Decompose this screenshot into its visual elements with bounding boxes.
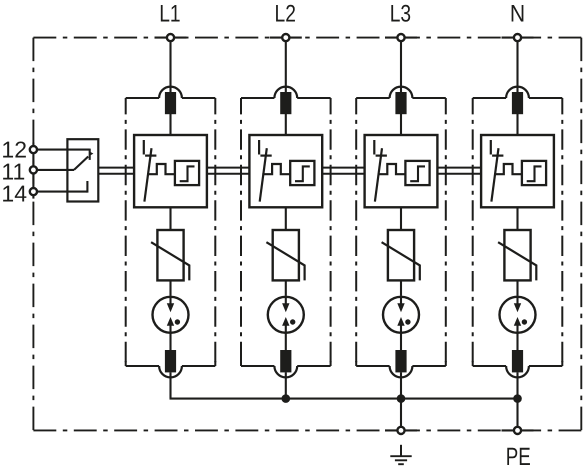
node PE terminal on enclosure bbox=[514, 427, 521, 434]
wire contact 11 bbox=[33, 169, 74, 171]
wire (top border solid at node) bbox=[270, 37, 302, 39]
spark gap F6 circle bbox=[268, 297, 304, 333]
module box L2 left side (dash-dot) bbox=[240, 98, 242, 366]
module box L1 right side (dash-dot) bbox=[214, 98, 216, 366]
enclosure border right (dash-dot) bbox=[580, 38, 582, 431]
junction node L3/bus bbox=[397, 394, 406, 403]
varistor RV1 strike line bbox=[151, 242, 189, 280]
wire L3 input bbox=[400, 38, 402, 135]
node N (terminal on enclosure) bbox=[514, 34, 521, 41]
module box L3 bottom edge bbox=[356, 365, 389, 367]
spark gap F7 trigger dot bbox=[405, 319, 410, 324]
terminal arc L1 top bbox=[159, 87, 182, 98]
terminal X4 top (black block) bbox=[512, 92, 523, 114]
module box L1 left side (dash-dot) bbox=[125, 98, 127, 366]
terminal arc L3 top bbox=[390, 87, 413, 98]
svg-text:L1: L1 bbox=[159, 1, 180, 28]
varistor RV3 bbox=[388, 230, 414, 280]
monitoring unit U1 pulse symbol bbox=[180, 166, 195, 181]
terminal X2 top (black block) bbox=[280, 92, 291, 114]
wire L2 to PE bus bbox=[285, 372, 287, 398]
monitoring unit U4 (pulse box) bbox=[522, 161, 546, 185]
module box L1 bottom edge bbox=[126, 365, 159, 367]
module box L3 top edge bbox=[356, 97, 389, 99]
terminal X1 bottom (black block) bbox=[165, 350, 176, 372]
disconnector F4 switch contact bbox=[490, 140, 492, 155]
terminal X3 bottom (black block) bbox=[395, 350, 406, 372]
spark gap F5 circle bbox=[153, 297, 189, 333]
terminal X2 bottom (black block) bbox=[280, 350, 291, 372]
terminal arc N bottom bbox=[506, 366, 529, 377]
spark gap F7 electrodes bbox=[400, 296, 402, 305]
disconnector F1 switch contact bbox=[143, 140, 145, 155]
wire contact 14 bbox=[33, 191, 87, 193]
wire N to PE bus bbox=[516, 372, 518, 398]
disconnector F1 linkage staircase bbox=[147, 164, 175, 174]
mechanical linkage F1 to F2 (double line) bbox=[207, 167, 250, 169]
monitoring unit U4 pulse symbol bbox=[527, 166, 542, 181]
monitoring unit U1 (pulse box) bbox=[175, 161, 199, 185]
module box N bottom edge bbox=[473, 365, 506, 367]
svg-text:PE: PE bbox=[506, 443, 531, 471]
disconnector F2 linkage staircase bbox=[262, 164, 290, 174]
wire contact 12 bbox=[33, 149, 89, 151]
disconnector F3 box bbox=[365, 135, 438, 207]
monitoring unit U3 (pulse box) bbox=[405, 161, 429, 185]
terminal arc N top bbox=[506, 87, 529, 98]
wire N input bbox=[516, 38, 518, 135]
enclosure border bottom (dash-dot) bbox=[33, 429, 581, 431]
module box L1 top edge bbox=[126, 97, 159, 99]
node L2 (terminal on enclosure) bbox=[282, 34, 289, 41]
varistor RV3 strike line bbox=[382, 242, 420, 280]
mechanical linkage F3 to F4 (double line) bbox=[437, 167, 481, 169]
terminal arc L3 bottom bbox=[390, 366, 413, 377]
wire bus to PE terminal bbox=[516, 399, 518, 431]
node terminal 14 bbox=[30, 188, 37, 195]
monitoring unit U2 pulse symbol bbox=[295, 166, 310, 181]
ground symbol bbox=[400, 445, 402, 456]
spark gap F8 circle bbox=[500, 297, 536, 333]
svg-text:N: N bbox=[510, 1, 525, 28]
module box L2 right side (dash-dot) bbox=[330, 98, 332, 366]
enclosure border top (dash-dot) bbox=[33, 37, 581, 39]
node terminal 11 bbox=[30, 166, 37, 173]
wire L3 to PE bus bbox=[400, 372, 402, 398]
mechanical linkage remote-box to F1 (double line) bbox=[98, 167, 134, 169]
PE bus wire bbox=[170, 398, 518, 400]
wire N disconnector to varistor bbox=[516, 207, 518, 230]
remote contact box K1 bbox=[67, 139, 98, 201]
disconnector F2 box bbox=[249, 135, 322, 207]
varistor RV1 bbox=[157, 230, 183, 280]
node L1 (terminal on enclosure) bbox=[167, 34, 174, 41]
wire L3 disconnector to varistor bbox=[400, 207, 402, 230]
disconnector F1 box bbox=[134, 135, 207, 207]
varistor RV2 bbox=[273, 230, 299, 280]
changeover contact blade bbox=[74, 157, 88, 170]
module box N right side (dash-dot) bbox=[561, 98, 563, 366]
module box N left side (dash-dot) bbox=[472, 98, 474, 366]
svg-text:L2: L2 bbox=[275, 1, 296, 28]
wire L1 to PE bus bbox=[169, 372, 171, 398]
node earth terminal on enclosure bbox=[397, 427, 404, 434]
spark gap F8 electrodes bbox=[516, 296, 518, 305]
wire L2 disconnector to varistor bbox=[285, 207, 287, 230]
module box L2 bottom edge bbox=[241, 365, 274, 367]
monitoring unit U2 (pulse box) bbox=[290, 161, 314, 185]
wire L3 varistor to spark gap bbox=[400, 280, 402, 295]
disconnector F2 switch contact bbox=[258, 140, 260, 155]
module box N top edge bbox=[473, 97, 506, 99]
mechanical linkage F2 to F3 (double line) bbox=[322, 167, 364, 169]
wire L1 input bbox=[169, 38, 171, 135]
disconnector F4 linkage staircase bbox=[494, 164, 522, 174]
wire (top border solid at node) bbox=[155, 37, 187, 39]
wire N varistor to spark gap bbox=[516, 280, 518, 295]
module box L2 top edge bbox=[241, 97, 274, 99]
terminal X1 top (black block) bbox=[165, 92, 176, 114]
spark gap F5 trigger dot bbox=[175, 319, 180, 324]
junction node N/bus bbox=[513, 394, 522, 403]
enclosure border left (dash-dot) bbox=[32, 38, 34, 431]
module box L3 left side (dash-dot) bbox=[355, 98, 357, 366]
wire L1 disconnector to varistor bbox=[169, 207, 171, 230]
disconnector F3 linkage staircase bbox=[378, 164, 406, 174]
terminal arc L2 bottom bbox=[274, 366, 297, 377]
varistor RV4 strike line bbox=[498, 242, 536, 280]
wire L1 varistor to spark gap bbox=[169, 280, 171, 295]
spark gap F5 electrodes bbox=[169, 296, 171, 305]
wire L2 input bbox=[285, 38, 287, 135]
wire (bottom border solid at earth node) bbox=[385, 429, 417, 431]
monitoring unit U3 pulse symbol bbox=[410, 166, 425, 181]
spark gap F6 electrodes bbox=[285, 296, 287, 305]
disconnector F3 switch contact bbox=[373, 140, 375, 155]
terminal X4 bottom (black block) bbox=[512, 350, 523, 372]
node terminal 12 bbox=[30, 146, 37, 153]
spark gap F7 circle bbox=[383, 297, 419, 333]
varistor RV4 bbox=[504, 230, 530, 280]
svg-text:L3: L3 bbox=[390, 1, 411, 28]
wire (top border solid at node) bbox=[385, 37, 417, 39]
spark gap F6 trigger dot bbox=[290, 319, 295, 324]
changeover contact arrow bbox=[89, 151, 93, 156]
svg-text:14: 14 bbox=[1, 181, 27, 207]
wire L2 varistor to spark gap bbox=[285, 280, 287, 295]
terminal arc L2 top bbox=[274, 87, 297, 98]
terminal X3 top (black block) bbox=[395, 92, 406, 114]
terminal arc L1 bottom bbox=[159, 366, 182, 377]
disconnector F4 box bbox=[481, 135, 554, 207]
wire (top border solid at node) bbox=[502, 37, 534, 39]
node L3 (terminal on enclosure) bbox=[397, 34, 404, 41]
wire (left border solid through contacts) bbox=[32, 143, 34, 199]
varistor RV2 strike line bbox=[266, 242, 304, 280]
module box L3 right side (dash-dot) bbox=[445, 98, 447, 366]
wire (bottom border solid at PE node) bbox=[502, 429, 534, 431]
spark gap F8 trigger dot bbox=[522, 319, 527, 324]
wire bus to earth terminal bbox=[400, 399, 402, 431]
junction node L2/bus bbox=[282, 394, 291, 403]
